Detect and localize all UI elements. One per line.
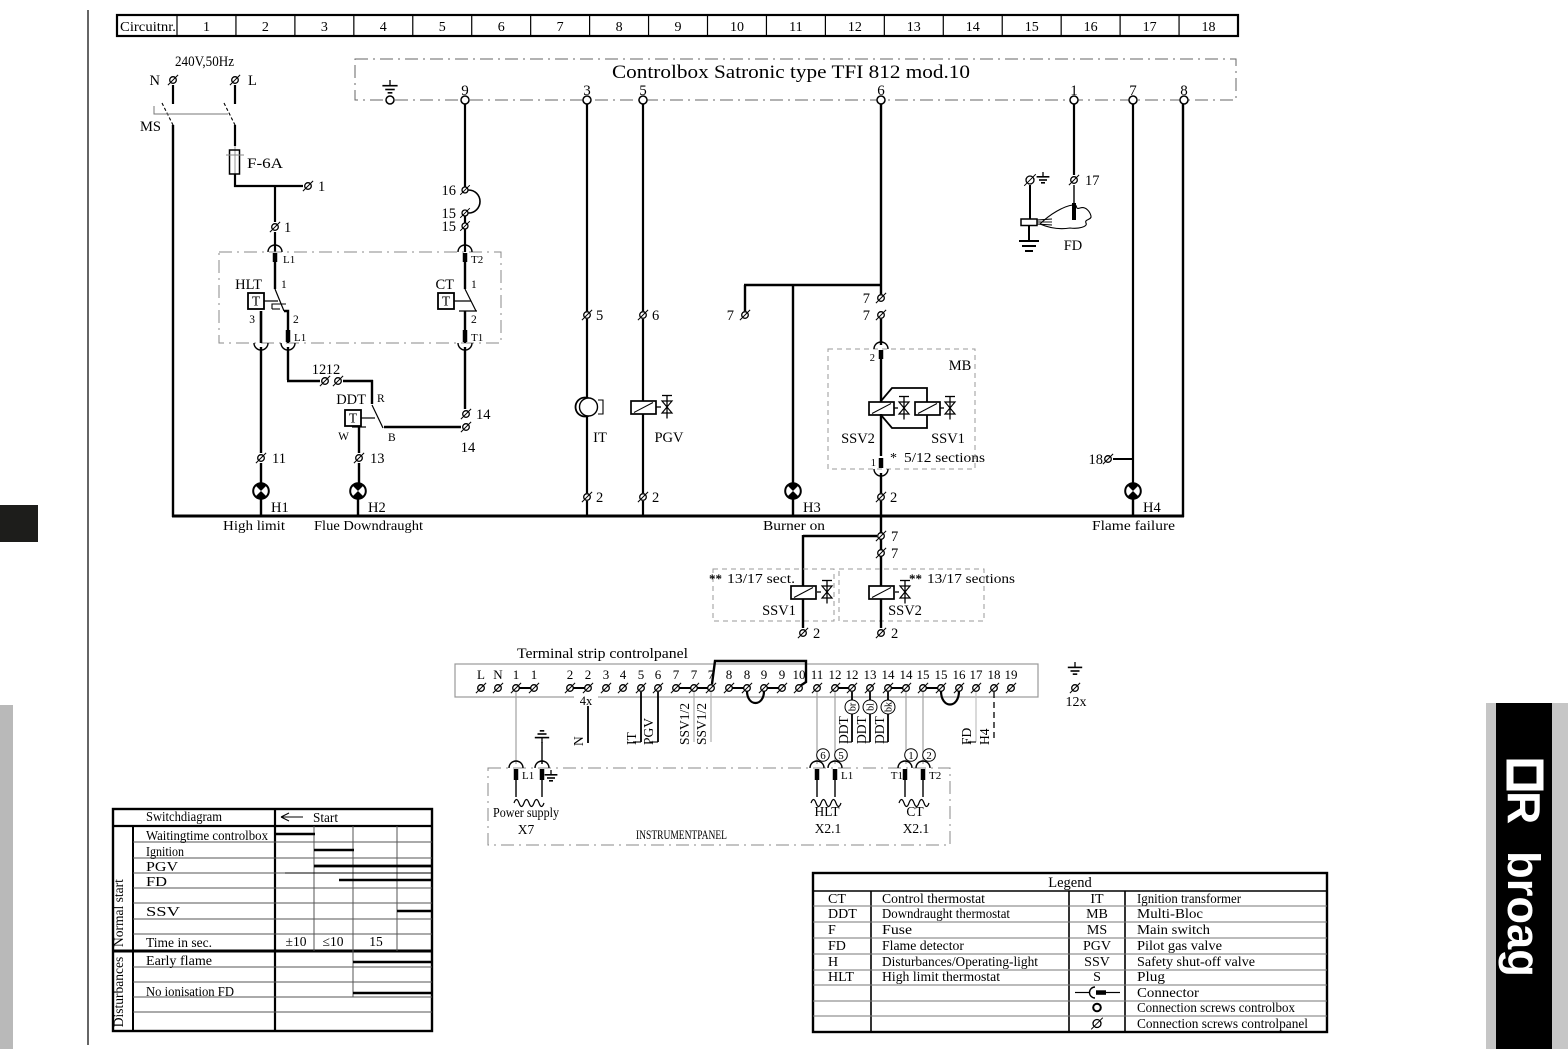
svg-text:13/17 sections: 13/17 sections [927,572,1015,587]
svg-text:N: N [571,736,586,746]
svg-text:11: 11 [272,451,286,467]
svg-text:SSV1: SSV1 [931,431,965,447]
svg-text:L1: L1 [522,770,534,782]
svg-text:1: 1 [1070,83,1078,99]
svg-text:MB: MB [1086,907,1108,922]
svg-text:4: 4 [620,667,627,682]
svg-text:Downdraught thermostat: Downdraught thermostat [882,907,1010,922]
svg-text:bl: bl [866,703,877,711]
svg-text:High limit thermostat: High limit thermostat [882,970,1000,985]
svg-text:2: 2 [926,750,932,762]
svg-text:S: S [1093,970,1101,985]
svg-text:PGV: PGV [641,718,656,745]
svg-text:IT: IT [593,430,607,446]
svg-text:W: W [338,431,349,443]
svg-text:8: 8 [616,20,623,35]
svg-text:9: 9 [461,83,469,99]
svg-text:2: 2 [891,626,898,642]
svg-text:Fuse: Fuse [882,923,912,938]
svg-text:2: 2 [293,314,299,326]
svg-text:FD: FD [146,875,167,890]
svg-text:H3: H3 [803,500,821,516]
svg-text:L1: L1 [841,770,853,782]
svg-text:N: N [493,667,503,682]
svg-text:6: 6 [820,750,826,762]
svg-text:1: 1 [531,667,538,682]
svg-text:15: 15 [442,219,457,235]
svg-text:Disturbances: Disturbances [111,957,126,1027]
svg-text:Plug: Plug [1137,970,1165,985]
svg-text:CT: CT [906,804,924,819]
svg-text:X2.1: X2.1 [903,821,930,836]
svg-text:Start: Start [313,811,338,826]
svg-text:6: 6 [652,308,659,324]
svg-text:2: 2 [471,314,477,326]
svg-text:T1: T1 [891,770,903,782]
svg-text:T: T [349,411,358,426]
svg-text:Ignition transformer: Ignition transformer [1137,892,1241,907]
svg-text:9: 9 [779,667,786,682]
svg-text:5: 5 [838,750,844,762]
svg-text:2: 2 [870,353,875,364]
svg-text:**: ** [909,571,922,586]
svg-text:10: 10 [793,667,806,682]
svg-text:Connection screws controlbox: Connection screws controlbox [1137,1001,1295,1016]
svg-text:L1: L1 [283,254,295,266]
svg-text:H4: H4 [977,728,992,745]
svg-text:2: 2 [596,490,603,506]
svg-text:7: 7 [557,20,564,35]
svg-text:T: T [442,294,451,309]
svg-text:X7: X7 [518,822,535,837]
svg-text:HLT: HLT [828,970,854,985]
svg-text:12: 12 [846,667,859,682]
svg-text:12: 12 [326,362,341,378]
svg-text:SSV: SSV [1084,955,1110,970]
svg-text:L: L [248,73,257,89]
svg-text:br: br [848,702,859,711]
svg-text:Disturbances/Operating-light: Disturbances/Operating-light [882,955,1038,970]
svg-text:Connector: Connector [1137,986,1199,1001]
svg-text:HLT: HLT [235,277,262,293]
svg-text:Terminal strip controlpanel: Terminal strip controlpanel [517,646,688,662]
svg-text:DDT: DDT [336,392,366,408]
svg-text:19: 19 [1005,667,1018,682]
svg-text:B: B [388,432,396,444]
svg-text:13: 13 [907,20,921,35]
svg-text:5: 5 [638,667,645,682]
svg-text:14: 14 [882,667,896,682]
svg-text:1: 1 [871,458,876,469]
svg-text:3: 3 [249,314,255,326]
svg-text:L: L [477,667,485,682]
svg-text:*: * [890,451,897,466]
svg-text:5/12 sections: 5/12 sections [904,451,985,466]
svg-text:T2: T2 [929,770,941,782]
svg-text:9: 9 [761,667,768,682]
svg-text:6: 6 [877,83,885,99]
svg-text:Power supply: Power supply [493,805,559,820]
svg-text:11: 11 [789,20,802,35]
svg-text:CT: CT [435,277,454,293]
svg-text:14: 14 [461,440,476,456]
svg-text:Pilot gas valve: Pilot gas valve [1137,939,1222,954]
svg-text:10: 10 [730,20,744,35]
svg-text:1: 1 [513,667,520,682]
svg-text:DDT: DDT [828,907,857,922]
svg-text:5: 5 [639,83,647,99]
svg-text:2: 2 [890,490,897,506]
svg-text:18: 18 [1089,452,1104,468]
svg-text:6: 6 [498,20,505,35]
svg-text:13: 13 [864,667,877,682]
svg-text:2: 2 [567,667,574,682]
svg-text:18: 18 [1202,20,1216,35]
svg-text:DDT: DDT [872,716,887,744]
svg-text:Ignition: Ignition [146,845,184,860]
svg-text:INSTRUMENTPANEL: INSTRUMENTPANEL [636,827,727,842]
svg-text:R: R [377,393,385,405]
svg-text:1: 1 [284,220,291,236]
svg-text:14: 14 [966,20,980,35]
svg-text:H1: H1 [271,500,289,516]
svg-text:17: 17 [1085,173,1100,189]
svg-text:2: 2 [585,667,592,682]
svg-text:PGV: PGV [146,860,178,875]
svg-text:Circuitnr.: Circuitnr. [120,20,176,35]
svg-text:≤10: ≤10 [323,934,344,949]
svg-text:MS: MS [1087,923,1107,938]
svg-text:Multi-Bloc: Multi-Bloc [1137,907,1203,922]
svg-text:16: 16 [953,667,967,682]
svg-text:5: 5 [439,20,446,35]
svg-text:18: 18 [988,667,1001,682]
svg-text:14: 14 [900,667,914,682]
svg-text:HLT: HLT [814,804,840,819]
svg-text:R: R [1498,791,1550,824]
svg-text:6: 6 [655,667,662,682]
svg-text:DDT: DDT [836,716,851,744]
svg-text:Flue Downdraught: Flue Downdraught [314,519,423,534]
svg-text:MS: MS [140,119,161,135]
svg-text:1: 1 [908,750,914,762]
svg-text:Flame failure: Flame failure [1092,519,1175,534]
svg-text:7: 7 [863,291,870,307]
svg-text:7: 7 [727,308,734,324]
svg-text:SSV: SSV [146,905,180,920]
svg-text:3: 3 [583,83,591,99]
svg-text:12: 12 [848,20,862,35]
svg-text:T2: T2 [471,254,483,266]
svg-text:±10: ±10 [286,934,307,949]
svg-text:2: 2 [262,20,269,35]
svg-text:CT: CT [828,892,846,907]
svg-text:16: 16 [1084,20,1098,35]
svg-text:Flame detector: Flame detector [882,939,964,954]
svg-text:5: 5 [596,308,603,324]
svg-text:H4: H4 [1143,500,1161,516]
svg-text:Control thermostat: Control thermostat [882,892,985,907]
svg-text:No ionisation FD: No ionisation FD [146,985,234,1000]
svg-text:bk: bk [884,702,895,712]
svg-text:MB: MB [949,358,972,374]
svg-text:8: 8 [744,667,751,682]
svg-text:Connection screws controlpanel: Connection screws controlpanel [1137,1017,1308,1032]
svg-text:FD: FD [828,939,846,954]
svg-text:IT: IT [624,732,639,745]
svg-text:F-6A: F-6A [247,156,284,172]
svg-text:Switchdiagram: Switchdiagram [146,810,222,825]
svg-text:4x: 4x [580,694,593,708]
svg-text:SSV1: SSV1 [762,603,796,619]
svg-text:**: ** [709,571,722,586]
svg-text:High limit: High limit [223,519,285,534]
svg-text:15: 15 [917,667,930,682]
svg-text:Safety shut-off valve: Safety shut-off valve [1137,955,1255,970]
svg-text:PGV: PGV [654,430,684,446]
svg-text:7: 7 [1129,83,1137,99]
svg-text:X2.1: X2.1 [815,821,842,836]
svg-text:12: 12 [312,362,327,378]
svg-text:T1: T1 [471,332,483,344]
svg-text:3: 3 [321,20,328,35]
svg-text:1: 1 [203,20,210,35]
svg-text:Time in sec.: Time in sec. [146,936,212,951]
svg-text:7: 7 [891,546,898,562]
svg-text:DDT: DDT [854,716,869,744]
svg-text:Burner on: Burner on [763,519,825,534]
svg-text:FD: FD [1064,238,1083,254]
svg-text:T: T [252,294,261,309]
svg-text:Normal start: Normal start [111,879,126,947]
svg-text:PGV: PGV [1083,939,1111,954]
svg-text:15: 15 [935,667,948,682]
svg-text:17: 17 [970,667,984,682]
svg-text:9: 9 [675,20,682,35]
svg-text:13: 13 [370,451,385,467]
svg-text:Waitingtime controlbox: Waitingtime controlbox [146,829,268,844]
svg-text:7: 7 [691,667,698,682]
svg-text:7: 7 [863,308,870,324]
svg-text:broag: broag [1498,851,1549,977]
svg-text:15: 15 [1025,20,1039,35]
svg-text:17: 17 [1143,20,1157,35]
svg-text:16: 16 [442,183,457,199]
svg-text:15: 15 [369,934,383,949]
svg-text:Legend: Legend [1048,875,1092,891]
svg-text:H: H [828,955,838,970]
svg-text:12: 12 [829,667,842,682]
svg-text:7: 7 [891,529,898,545]
svg-text:N: N [150,73,161,89]
svg-text:7: 7 [673,667,680,682]
svg-text:F: F [828,923,836,938]
svg-text:4: 4 [380,20,387,35]
svg-text:13/17 sect.: 13/17 sect. [727,572,795,587]
svg-text:12x: 12x [1066,695,1087,710]
svg-text:2: 2 [813,626,820,642]
svg-text:1: 1 [318,179,325,195]
svg-text:IT: IT [1090,892,1104,907]
svg-text:1: 1 [471,279,477,291]
svg-text:8: 8 [1180,83,1188,99]
svg-text:14: 14 [476,407,491,423]
svg-text:SSV2: SSV2 [888,603,922,619]
svg-text:SSV2: SSV2 [841,431,875,447]
svg-text:Controlbox Satronic type TFI 8: Controlbox Satronic type TFI 812 mod.10 [612,63,970,83]
svg-text:SSV1/2: SSV1/2 [694,703,709,745]
svg-text:Early flame: Early flame [146,954,212,969]
svg-text:3: 3 [603,667,610,682]
svg-text:240V,50Hz: 240V,50Hz [175,54,235,70]
svg-text:11: 11 [811,667,824,682]
svg-text:Main switch: Main switch [1137,923,1210,938]
svg-text:SSV1/2: SSV1/2 [677,703,692,745]
svg-text:8: 8 [726,667,733,682]
svg-text:2: 2 [652,490,659,506]
svg-text:L1: L1 [294,332,306,344]
svg-text:1: 1 [281,279,287,291]
svg-text:H2: H2 [368,500,386,516]
